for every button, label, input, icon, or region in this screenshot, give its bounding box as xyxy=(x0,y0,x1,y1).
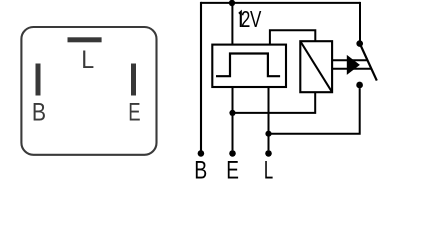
wire: coil bottom to E net xyxy=(233,92,316,113)
wire: B terminal drop (left vertical) xyxy=(200,2,202,151)
wire: L junction to switch lower contact xyxy=(269,88,360,133)
wire: oscillator bottom-left to E terminal xyxy=(232,87,234,150)
wire: rail to oscillator top-left xyxy=(231,3,233,45)
switch lower contact xyxy=(356,82,363,89)
wire: rail down to switch upper contact xyxy=(359,2,361,44)
pin L blade (top horizontal bar) xyxy=(68,37,102,42)
svg-text:V: V xyxy=(250,8,262,33)
actuator arrow head xyxy=(347,55,360,75)
switch blade xyxy=(360,44,377,81)
relay body outline xyxy=(21,27,156,155)
pin B blade (left vertical bar) xyxy=(36,64,41,96)
wire: +12V supply rail (top) xyxy=(201,2,360,4)
svg-text:2: 2 xyxy=(241,8,250,33)
oscillator box U1 xyxy=(212,45,286,87)
switch upper contact xyxy=(356,40,363,47)
svg-text:E: E xyxy=(128,98,140,126)
node: L junction xyxy=(265,131,271,137)
12V net label: digit 1 (drawn) xyxy=(239,12,241,27)
terminal dot E xyxy=(229,150,236,157)
wire: oscillator output to relay coil (top bend) xyxy=(270,30,315,44)
terminal dot L xyxy=(265,150,272,157)
relay coil K1 (box with diagonal) xyxy=(300,41,332,92)
svg-text:B: B xyxy=(32,98,46,126)
square-wave symbol inside U1 xyxy=(216,54,280,77)
svg-text:E: E xyxy=(226,156,239,184)
svg-text:L: L xyxy=(264,156,273,184)
mechanical link double line xyxy=(332,60,371,68)
svg-text:B: B xyxy=(194,156,207,184)
node: rail to oscillator junction xyxy=(229,0,235,6)
coil diagonal xyxy=(300,41,332,92)
pin E blade (right vertical bar) xyxy=(131,64,136,96)
terminal dot B xyxy=(198,150,205,157)
svg-text:L: L xyxy=(81,46,94,74)
wire: oscillator bottom-right to L terminal xyxy=(268,87,270,150)
node: E junction xyxy=(229,110,235,116)
